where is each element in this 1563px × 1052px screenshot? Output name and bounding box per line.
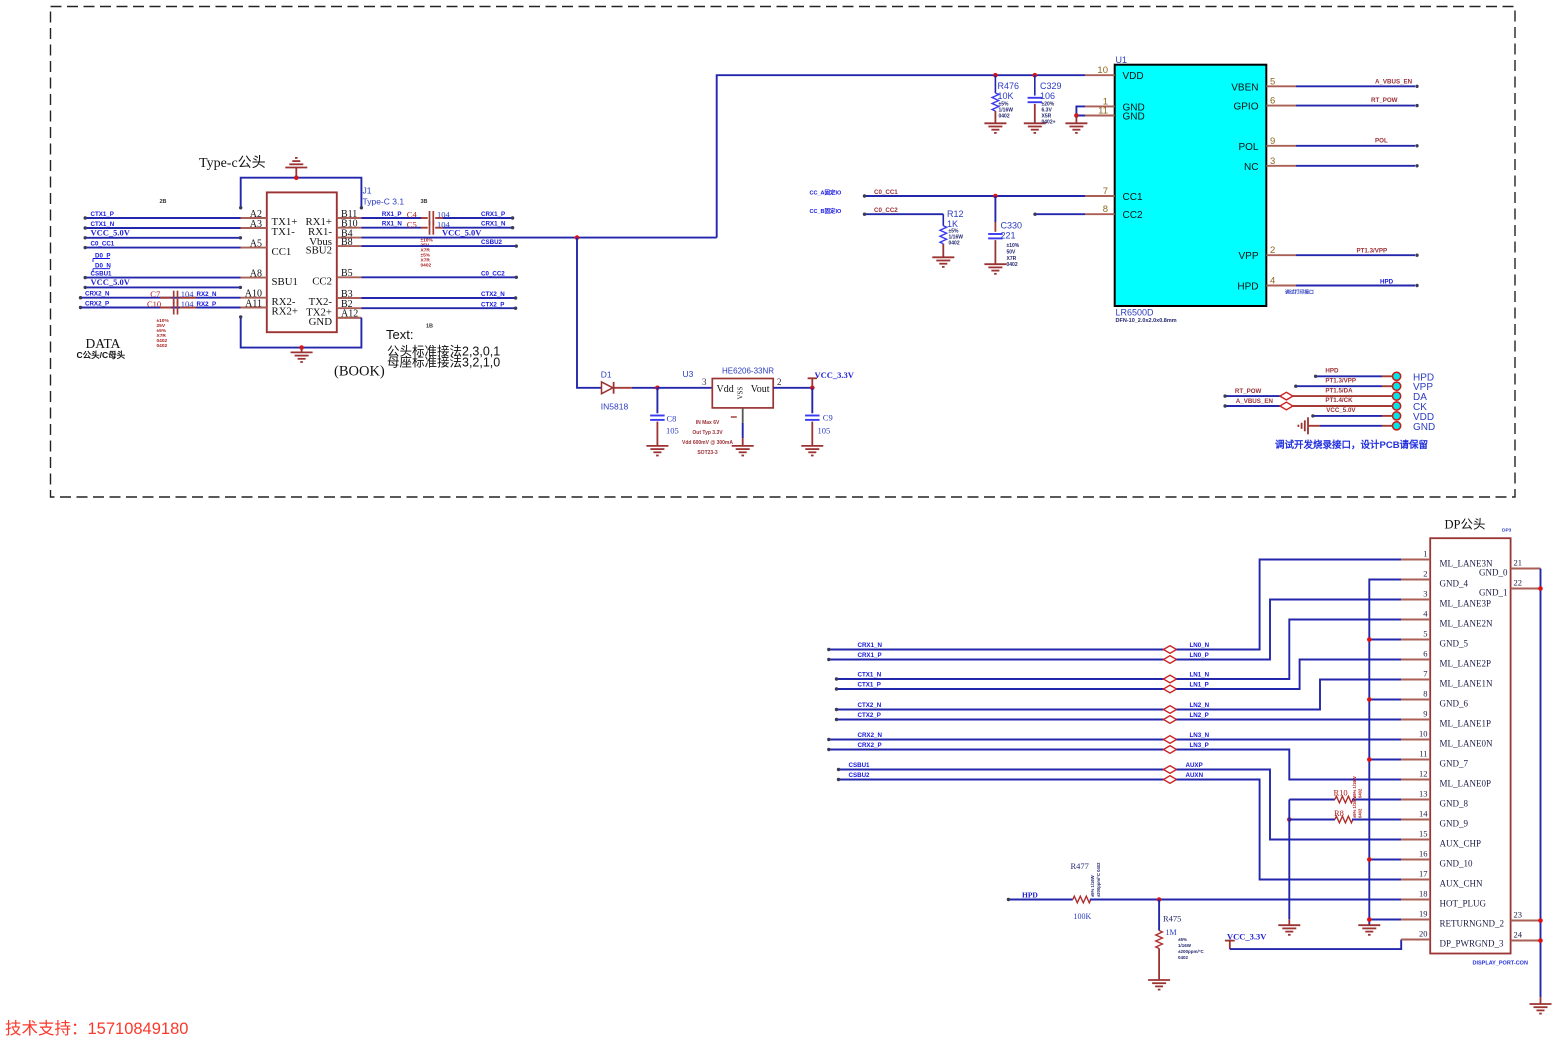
- wire lane route: [1177, 750, 1402, 780]
- pin A10 stub: [241, 297, 267, 299]
- svg-text:13: 13: [1419, 789, 1428, 799]
- svg-text:C4: C4: [407, 210, 418, 220]
- svg-text:LN1_P: LN1_P: [1190, 682, 1209, 689]
- svg-text:100K: 100K: [1074, 912, 1092, 921]
- svg-text:10: 10: [1419, 729, 1428, 739]
- wire gnd pin stub: [1369, 859, 1401, 861]
- svg-text:C9: C9: [823, 413, 833, 423]
- svg-text:C0_CC2: C0_CC2: [481, 270, 505, 277]
- svg-text:技术支持：15710849180: 技术支持：15710849180: [5, 1019, 188, 1038]
- svg-text:HOT_PLUG: HOT_PLUG: [1440, 899, 1487, 909]
- capacitor C9: [811, 388, 813, 414]
- wire to CC2 pin: [1035, 213, 1085, 215]
- svg-text:GND_8: GND_8: [1440, 799, 1469, 809]
- header pin CK: [1393, 402, 1401, 410]
- pin B4 stub: [337, 237, 362, 239]
- wire U3 Vout to VCC_3.3V: [773, 387, 812, 389]
- svg-text:PT1.3/VPP: PT1.3/VPP: [1357, 248, 1388, 255]
- svg-text:104: 104: [437, 210, 451, 220]
- svg-text:10: 10: [1097, 65, 1108, 76]
- svg-text:GND_0: GND_0: [1479, 568, 1508, 578]
- svg-text:GND_9: GND_9: [1440, 819, 1469, 829]
- DP pin 22: [1511, 588, 1541, 590]
- wire lane route: [1177, 620, 1402, 680]
- svg-text:±200ppm/°C: ±200ppm/°C: [1178, 949, 1205, 954]
- svg-text:C7: C7: [150, 289, 160, 299]
- svg-text:221: 221: [1001, 230, 1016, 240]
- svg-text:1M: 1M: [1166, 928, 1177, 937]
- DP pin 10 ML_LANE0N: [1401, 739, 1430, 741]
- svg-text:VCC_5.0V: VCC_5.0V: [442, 228, 482, 238]
- wire C0_CC2: [865, 213, 944, 215]
- svg-text:Vdd 600mV @ 300mA: Vdd 600mV @ 300mA: [682, 440, 733, 446]
- DP pin 3 ML_LANE3P: [1401, 599, 1430, 601]
- wire CTX2_N: [362, 297, 516, 299]
- svg-text:1: 1: [1423, 549, 1427, 559]
- svg-text:VCC_3.3V: VCC_3.3V: [815, 370, 855, 380]
- DP pin 1 ML_LANE3N: [1401, 559, 1430, 561]
- wire from U1 VBEN: [1296, 85, 1415, 87]
- U1 pin 8 CC2: [1085, 213, 1115, 215]
- svg-text:C5: C5: [407, 219, 417, 229]
- svg-text:C0_CC1: C0_CC1: [874, 189, 898, 196]
- pin A3 stub: [241, 227, 267, 229]
- svg-text:调试打印接口: 调试打印接口: [1285, 288, 1314, 295]
- wire U1 GND pins to ground: [1076, 106, 1085, 115]
- svg-text:106: 106: [1040, 91, 1055, 101]
- svg-text:GND_7: GND_7: [1440, 759, 1469, 769]
- wire from U1 HPD: [1296, 285, 1415, 287]
- wire CTX2_P: [362, 307, 516, 309]
- wire CTX1_N to pin A3: [85, 227, 240, 229]
- svg-text:CSBU1: CSBU1: [849, 762, 871, 769]
- wire from U1 GPIO: [1296, 105, 1415, 107]
- svg-text:3: 3: [1270, 156, 1275, 167]
- svg-text:TX1-: TX1-: [272, 226, 296, 238]
- wire RT_POW PT1.5/DA: [1225, 395, 1280, 397]
- U1 pin 1 GND: [1085, 105, 1115, 107]
- svg-text:CRX2_N: CRX2_N: [858, 732, 883, 739]
- pin A5 stub: [241, 247, 267, 249]
- svg-text:(BOOK): (BOOK): [334, 364, 385, 380]
- svg-text:18: 18: [1419, 889, 1428, 899]
- node bottom gnd junction: [299, 345, 304, 350]
- DP pin 7 ML_LANE1N: [1401, 679, 1430, 681]
- wire lane route: [1177, 739, 1402, 741]
- pin B8 stub: [337, 245, 362, 247]
- svg-text:RT_POW: RT_POW: [1235, 388, 1262, 395]
- svg-text:0402: 0402: [1358, 808, 1363, 818]
- svg-text:2B: 2B: [160, 199, 167, 205]
- DP pin 16 GND_10: [1401, 859, 1430, 861]
- svg-text:RX2+: RX2+: [272, 306, 299, 318]
- svg-text:Vout: Vout: [751, 384, 770, 395]
- svg-text:GND: GND: [1413, 422, 1435, 433]
- wire from U1 VPP: [1296, 254, 1415, 256]
- header pin VDD: [1393, 412, 1401, 420]
- svg-text:5: 5: [1270, 76, 1275, 87]
- svg-text:X7R: X7R: [1007, 256, 1017, 262]
- DP pin 20 DP_PWRGND_3: [1401, 939, 1430, 941]
- svg-text:DP_PWRGND_3: DP_PWRGND_3: [1440, 939, 1505, 949]
- svg-text:J1: J1: [363, 186, 372, 196]
- svg-text:VPP: VPP: [1238, 251, 1258, 262]
- svg-text:15: 15: [1419, 829, 1428, 839]
- wire C0_CC1 to CC1: [865, 195, 1086, 197]
- svg-text:0402: 0402: [421, 263, 432, 269]
- wire VCC_5.0V to header: [1313, 415, 1382, 417]
- ground at U1 GND: [1075, 116, 1077, 124]
- svg-text:DISPLAY_PORT-CON: DISPLAY_PORT-CON: [1473, 961, 1528, 967]
- svg-text:CRX2_P: CRX2_P: [85, 300, 109, 307]
- ground DP bus: [1358, 924, 1380, 926]
- capacitor C10: [160, 307, 171, 309]
- ground top (inverted): [295, 168, 297, 178]
- svg-text:0402: 0402: [157, 343, 168, 349]
- svg-text:CRX1_P: CRX1_P: [858, 652, 882, 659]
- svg-text:4: 4: [1270, 276, 1275, 287]
- svg-text:GND_5: GND_5: [1440, 639, 1469, 649]
- ground left of header: [1307, 417, 1309, 434]
- svg-text:1/16W: 1/16W: [1178, 943, 1192, 948]
- svg-text:HPD: HPD: [1325, 368, 1339, 375]
- svg-text:CC_B固定IO: CC_B固定IO: [810, 207, 843, 215]
- diode D1: [602, 382, 613, 394]
- U1 pin 5 VBEN: [1266, 85, 1296, 87]
- wire RX1_N / capacitor C5 row: [362, 227, 422, 229]
- svg-text:R476: R476: [998, 81, 1020, 91]
- svg-text:A_VBUS_EN: A_VBUS_EN: [1236, 398, 1274, 405]
- wire CRX1_P to LN0_P: [829, 659, 1164, 661]
- svg-text:6: 6: [1423, 649, 1427, 659]
- svg-text:0402+: 0402+: [1042, 120, 1056, 126]
- power symbol VCC_3.3V: [811, 378, 813, 388]
- wire lane route: [1177, 560, 1402, 650]
- svg-text:GND_6: GND_6: [1440, 699, 1469, 709]
- svg-text:HPD: HPD: [1237, 282, 1258, 293]
- header pin GND: [1393, 422, 1401, 430]
- svg-text:3: 3: [702, 377, 707, 387]
- svg-text:C公头/C母头: C公头/C母头: [77, 350, 126, 360]
- svg-text:±10%: ±10%: [1007, 243, 1020, 249]
- svg-text:A5: A5: [250, 238, 262, 249]
- wire CRX2_N to pin A10: [81, 297, 241, 299]
- DP pin 12 ML_LANE0P: [1401, 779, 1430, 781]
- svg-text:GND_1: GND_1: [1479, 588, 1508, 598]
- node C8 junction: [655, 386, 660, 391]
- DP pin 18 HOT_PLUG: [1401, 899, 1430, 901]
- wire vertical to D1: [577, 238, 602, 388]
- wire from U1 POL: [1296, 145, 1415, 147]
- svg-text:SBU1: SBU1: [272, 276, 298, 288]
- svg-text:ML_LANE0P: ML_LANE0P: [1440, 779, 1492, 789]
- svg-text:104: 104: [181, 289, 195, 299]
- DP pin 17 AUX_CHN: [1401, 879, 1430, 881]
- svg-text:CTX1_P: CTX1_P: [91, 211, 114, 218]
- wire lane route: [1177, 770, 1402, 840]
- svg-text:Type-C 3.1: Type-C 3.1: [363, 197, 405, 207]
- svg-text:CTX2_N: CTX2_N: [481, 291, 505, 298]
- svg-text:R12: R12: [947, 209, 964, 219]
- svg-text:CC2: CC2: [312, 276, 332, 288]
- svg-text:6: 6: [1270, 96, 1275, 107]
- svg-text:POL: POL: [1238, 142, 1258, 153]
- wire to U3 Vdd: [657, 387, 712, 389]
- svg-text:11: 11: [1098, 106, 1108, 117]
- svg-text:VCC_3.3V: VCC_3.3V: [1227, 931, 1267, 941]
- svg-text:24: 24: [1514, 930, 1523, 940]
- svg-text:VCC_5.0V: VCC_5.0V: [91, 277, 131, 287]
- svg-text:A_VBUS_EN: A_VBUS_EN: [1375, 78, 1413, 85]
- svg-text:GND: GND: [1123, 112, 1145, 123]
- svg-text:C330: C330: [1001, 221, 1023, 231]
- regulator U3: [712, 379, 773, 408]
- wire VCC_5.0V stub: [85, 237, 240, 239]
- svg-text:RETURNGND_2: RETURNGND_2: [1440, 919, 1505, 929]
- svg-text:8: 8: [1423, 689, 1427, 699]
- DP pin 5 GND_5: [1401, 639, 1430, 641]
- wire lane route: [1177, 719, 1402, 721]
- svg-text:Vdd: Vdd: [717, 384, 734, 395]
- svg-text:17: 17: [1419, 869, 1428, 879]
- svg-text:R8: R8: [1334, 808, 1344, 818]
- DP pin 9 ML_LANE1P: [1401, 719, 1430, 721]
- pin B10 stub: [337, 227, 362, 229]
- svg-text:B5: B5: [341, 268, 353, 279]
- wire gnd pin stub: [1369, 699, 1401, 701]
- svg-text:0402: 0402: [1007, 262, 1018, 268]
- header pin HPD: [1393, 372, 1401, 380]
- resistor R476: [994, 75, 996, 93]
- svg-text:ML_LANE1N: ML_LANE1N: [1440, 679, 1493, 689]
- svg-text:±5% 1/16W: ±5% 1/16W: [1090, 875, 1095, 897]
- resistor R8: [1287, 817, 1292, 822]
- svg-text:VDD: VDD: [1123, 71, 1144, 82]
- svg-text:DP3: DP3: [1502, 528, 1512, 534]
- DP pin 13 GND_8: [1401, 799, 1430, 801]
- U1 pin 4 HPD: [1266, 285, 1296, 287]
- svg-text:AUX_CHN: AUX_CHN: [1440, 879, 1484, 889]
- svg-text:CC1: CC1: [1123, 192, 1143, 203]
- wire CTX1_P to LN1_P: [837, 688, 1164, 690]
- svg-text:A11: A11: [245, 298, 262, 309]
- svg-text:AUX_CHP: AUX_CHP: [1440, 839, 1482, 849]
- svg-text:3: 3: [1423, 589, 1427, 599]
- svg-text:CTX1_P: CTX1_P: [858, 682, 881, 689]
- svg-text:5: 5: [1423, 629, 1427, 639]
- svg-text:LN3_N: LN3_N: [1190, 732, 1210, 739]
- wire RX1_P / capacitor C4 row: [362, 217, 422, 219]
- svg-text:2: 2: [1270, 245, 1275, 256]
- svg-text:±5% 1/16W: ±5% 1/16W: [1352, 796, 1357, 818]
- svg-text:POL: POL: [1375, 137, 1388, 144]
- svg-text:0402: 0402: [1178, 955, 1189, 960]
- DP pin 21: [1511, 568, 1541, 570]
- svg-text:11: 11: [1419, 749, 1427, 759]
- svg-text:RX2_N: RX2_N: [197, 291, 217, 298]
- svg-text:Out Typ 3.3V: Out Typ 3.3V: [692, 430, 723, 436]
- svg-text:B8: B8: [341, 237, 353, 248]
- wire CSBU2 to AUXN: [839, 779, 1164, 781]
- wire CSBU1 to pin A8: [85, 277, 240, 279]
- svg-text:A3: A3: [250, 219, 262, 230]
- svg-text:D1: D1: [601, 370, 612, 380]
- svg-text:LN0_P: LN0_P: [1190, 652, 1209, 659]
- wire CTX2_N to LN2_N: [837, 709, 1164, 711]
- node R476 junction: [993, 73, 998, 78]
- svg-text:NC: NC: [1244, 162, 1258, 173]
- resistor R475: [1158, 900, 1160, 931]
- DP pin 24: [1511, 940, 1541, 942]
- resistor R477: [1073, 896, 1091, 903]
- wire CTX1_P to pin A2: [85, 217, 240, 219]
- svg-text:C329: C329: [1040, 81, 1062, 91]
- svg-text:VCC_5.0V: VCC_5.0V: [91, 227, 131, 237]
- svg-text:CC_A固定IO: CC_A固定IO: [810, 189, 843, 197]
- svg-text:LN0_N: LN0_N: [1190, 642, 1210, 649]
- svg-text:GPIO: GPIO: [1233, 102, 1258, 113]
- svg-text:1K: 1K: [947, 219, 958, 229]
- svg-text:HE6206-33NR: HE6206-33NR: [722, 367, 774, 376]
- shield top wire: [241, 178, 362, 208]
- svg-text:3B: 3B: [421, 199, 428, 205]
- svg-text:CRX1_P: CRX1_P: [481, 211, 505, 218]
- capacitor C7: [160, 297, 171, 299]
- svg-text:DP公头: DP公头: [1445, 518, 1486, 532]
- svg-text:CSBU2: CSBU2: [849, 772, 871, 779]
- capacitor C329: [1034, 75, 1036, 95]
- svg-text:7: 7: [1423, 669, 1427, 679]
- DP pin 11 GND_7: [1401, 759, 1430, 761]
- power symbol VCC_3.3V bottom: [1225, 940, 1235, 942]
- svg-text:AUXP: AUXP: [1186, 762, 1203, 769]
- U1 pin 7 CC1: [1085, 195, 1115, 197]
- svg-text:ML_LANE3P: ML_LANE3P: [1440, 599, 1492, 609]
- svg-text:21: 21: [1514, 558, 1523, 568]
- node C329 junction: [1033, 73, 1038, 78]
- svg-text:CRX2_P: CRX2_P: [858, 742, 882, 749]
- svg-text:HPD: HPD: [1022, 891, 1038, 900]
- node HPD junction: [1157, 897, 1162, 902]
- svg-text:VSS: VSS: [737, 387, 745, 400]
- svg-text:CTX2_P: CTX2_P: [858, 712, 881, 719]
- svg-text:A8: A8: [250, 268, 262, 279]
- header pin VPP: [1393, 382, 1401, 390]
- wire GND to header: [1308, 425, 1320, 427]
- svg-text:C0_CC2: C0_CC2: [874, 207, 898, 214]
- svg-text:104: 104: [181, 299, 195, 309]
- svg-text:LN1_N: LN1_N: [1190, 672, 1210, 679]
- svg-text:CTX2_P: CTX2_P: [481, 301, 504, 308]
- connector DP3 body: [1430, 538, 1510, 953]
- svg-text:CTX2_N: CTX2_N: [858, 702, 882, 709]
- resistor R10: [1289, 799, 1335, 801]
- wire HPD to header: [1316, 375, 1382, 377]
- wire CRX2_N to LN3_N: [829, 739, 1164, 741]
- DP pin 6 ML_LANE2P: [1401, 659, 1430, 661]
- wire VCC_5.0V stub: [85, 286, 240, 288]
- svg-text:RT_POW: RT_POW: [1371, 97, 1398, 104]
- node GND junction: [1074, 113, 1079, 118]
- wire lane route: [1177, 600, 1402, 660]
- svg-text:0402: 0402: [949, 241, 960, 247]
- pin B5 stub: [337, 276, 362, 278]
- svg-text:1B: 1B: [426, 324, 433, 330]
- node vbus junction: [575, 235, 580, 240]
- wire lane route: [1177, 660, 1402, 690]
- svg-text:12: 12: [1419, 769, 1428, 779]
- ground bottom of J1: [301, 348, 303, 353]
- svg-text:C8: C8: [667, 414, 677, 424]
- wire DP ground bus: [1369, 580, 1401, 926]
- pin B3 stub: [337, 297, 362, 299]
- svg-text:10K: 10K: [998, 91, 1014, 101]
- wire A_VBUS_EN PT1.4/CK: [1225, 405, 1280, 407]
- svg-text:ML_LANE1P: ML_LANE1P: [1440, 719, 1492, 729]
- svg-text:SBU2: SBU2: [306, 244, 332, 256]
- svg-text:ML_LANE0N: ML_LANE0N: [1440, 739, 1493, 749]
- svg-text:22: 22: [1514, 578, 1523, 588]
- svg-text:14: 14: [1419, 809, 1428, 819]
- svg-text:ML_LANE2P: ML_LANE2P: [1440, 659, 1492, 669]
- svg-text:SOT23-3: SOT23-3: [697, 450, 718, 456]
- svg-text:Type-c公头: Type-c公头: [199, 155, 266, 171]
- svg-text:GND_4: GND_4: [1440, 579, 1469, 589]
- svg-text:2: 2: [1423, 569, 1427, 579]
- svg-text:DATA: DATA: [86, 336, 121, 351]
- wire gnd pin stub: [1369, 639, 1401, 641]
- svg-text:0402: 0402: [999, 114, 1010, 120]
- wire gnd pin stub: [1369, 759, 1401, 761]
- node VCC_3.3V junction: [810, 386, 815, 391]
- pin A2 stub: [241, 217, 267, 219]
- resistor R12: [942, 214, 944, 226]
- pin A8 stub: [241, 277, 267, 279]
- sheet dashed border: [51, 7, 1516, 498]
- wire VCC_3.3V to DP pin 20: [1230, 940, 1401, 950]
- svg-text:CC2: CC2: [1123, 210, 1143, 221]
- svg-text:HPD: HPD: [1380, 279, 1394, 286]
- svg-text:105: 105: [818, 426, 831, 436]
- svg-text:19: 19: [1419, 909, 1428, 919]
- U3 pin 1 lead to ground: [742, 408, 744, 423]
- wire Vbus B4 to VDD rail: [362, 237, 717, 239]
- DP pin 23: [1511, 920, 1541, 922]
- svg-text:LN2_P: LN2_P: [1190, 712, 1209, 719]
- wire gnd pin stub: [1369, 919, 1401, 921]
- svg-text:RX1_P: RX1_P: [382, 211, 402, 218]
- wire C0_CC1 to pin A5: [85, 247, 240, 249]
- wire lane route: [1177, 680, 1402, 710]
- ground DP right: [1540, 997, 1542, 1004]
- svg-text:IN Max 6V: IN Max 6V: [696, 420, 720, 426]
- node shield-gnd junction: [294, 175, 299, 180]
- DP pin 8 GND_6: [1401, 699, 1430, 701]
- svg-text:调试开发烧录接口，设计PCB请保留: 调试开发烧录接口，设计PCB请保留: [1275, 439, 1428, 451]
- wire CRX2_P to pin A11: [81, 307, 241, 309]
- svg-text:CRX1_N: CRX1_N: [481, 221, 506, 228]
- capacitor C8: [656, 388, 658, 414]
- svg-text:GND_10: GND_10: [1440, 859, 1473, 869]
- svg-text:R475: R475: [1163, 913, 1181, 923]
- DP pin 4 ML_LANE2N: [1401, 619, 1430, 621]
- pin B2 stub: [337, 307, 362, 309]
- capacitor C330: [994, 196, 996, 222]
- svg-text:Text:: Text:: [386, 327, 413, 342]
- DP pin 14 GND_9: [1401, 819, 1430, 821]
- svg-text:105: 105: [666, 426, 679, 436]
- svg-text:50V: 50V: [1007, 249, 1017, 255]
